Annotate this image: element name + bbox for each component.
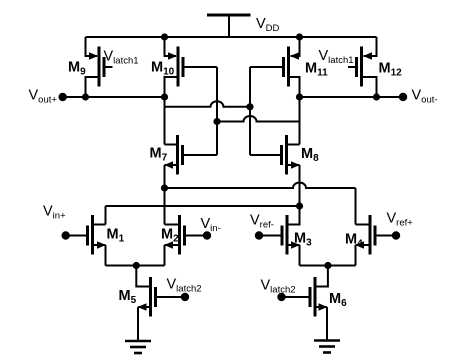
transistor M7 (NMOS) <box>164 135 217 225</box>
wire M1 drain vertical <box>105 206 107 225</box>
terminal dot Vlatch2 left <box>181 293 189 301</box>
wire M11 gate to M8 gate vertical <box>249 67 251 155</box>
terminal dot Vlatch2 right <box>277 293 285 301</box>
junction dot M10 drain / node Vout+ <box>161 93 168 100</box>
junction dot row2 / M10 gate <box>213 118 220 125</box>
terminal dot Vref- <box>255 231 263 239</box>
transistor M9 (PMOS) <box>86 37 113 97</box>
junction dot left tail <box>133 262 140 269</box>
wire right column vertical (M11 drain to M8 drain) <box>299 97 301 145</box>
terminal dot Vin- <box>203 231 211 239</box>
svg-text:Vout-: Vout- <box>412 88 438 106</box>
terminal dot Vref+ <box>392 231 400 239</box>
transistor M5 (NMOS tail) <box>136 266 185 342</box>
junction dot M11 drain / node Vout- <box>296 93 303 100</box>
svg-text:M5: M5 <box>119 288 137 306</box>
junction dot rail2 / M8 source / M3 drain <box>296 202 303 209</box>
svg-text:M10: M10 <box>151 60 175 78</box>
svg-text:M8: M8 <box>301 146 319 164</box>
junction dot rail1 / M7 source <box>161 184 168 191</box>
junction dot top rail / M10 source <box>161 33 168 40</box>
svg-text:Vin+: Vin+ <box>43 204 66 222</box>
svg-text:M9: M9 <box>68 60 86 78</box>
wire Vout+ rail <box>63 96 165 98</box>
wire M10 gate to M7 gate vertical <box>216 67 218 155</box>
ground (left, under M5) <box>125 341 151 353</box>
svg-text:Vref+: Vref+ <box>387 210 414 228</box>
transistor M1 (NMOS) <box>66 215 106 266</box>
terminal dot Vout- <box>399 93 407 101</box>
wire left tail rail <box>106 265 165 267</box>
svg-text:M2: M2 <box>161 227 179 245</box>
svg-text:M4: M4 <box>345 232 363 250</box>
svg-text:Vref-: Vref- <box>250 212 274 230</box>
VDD supply symbol <box>207 15 251 38</box>
terminal dot Vout+ <box>59 93 67 101</box>
wire M4 drain vertical <box>355 188 357 225</box>
svg-text:VDD: VDD <box>256 16 280 34</box>
wire rail2 (M1 drain to M3 drain / M8 source) <box>106 205 300 207</box>
transistor M8 (NMOS) <box>250 135 300 206</box>
wire Vout- rail <box>300 96 404 98</box>
transistor M2 (NMOS) <box>164 215 207 266</box>
terminal dot Vin+ <box>61 231 69 239</box>
junction dot M9 drain <box>82 93 89 100</box>
transistor M6 (NMOS tail) <box>282 266 328 341</box>
transistor M4 (NMOS) <box>355 215 396 266</box>
wire left column vertical (M10 drain to M7 drain) <box>164 97 166 145</box>
transistor M10 (PMOS) <box>165 37 218 97</box>
svg-text:M7: M7 <box>150 146 168 164</box>
ground (right, under M6) <box>314 341 340 353</box>
svg-text:Vin-: Vin- <box>201 216 221 234</box>
svg-text:M12: M12 <box>379 61 403 79</box>
transistor M3 (NMOS) <box>259 206 300 266</box>
junction dot right tail <box>324 262 331 269</box>
svg-text:M3: M3 <box>294 231 312 249</box>
svg-text:Vlatch2: Vlatch2 <box>261 277 296 295</box>
wire cross-couple row 2 (Vout- to M10/M7 gates) with hop <box>217 116 300 121</box>
svg-text:M6: M6 <box>329 291 347 309</box>
transistor M11 (PMOS) <box>250 37 300 97</box>
transistor M12 (PMOS) <box>348 37 377 97</box>
junction dot row1 / M11 gate <box>246 103 253 110</box>
wire right tail rail <box>300 265 356 267</box>
junction dot M12 drain <box>373 93 380 100</box>
svg-text:M1: M1 <box>107 227 125 245</box>
junction dot top rail / M11 source <box>296 33 303 40</box>
wire cross-couple row 1 (Vout+ to M11/M8 gates) with hop <box>165 101 251 107</box>
wire rail1 (M7 source to M4 drain) with hop <box>165 183 356 188</box>
wire top rail <box>86 36 377 38</box>
svg-text:Vlatch1: Vlatch1 <box>104 49 139 67</box>
svg-text:Vout+: Vout+ <box>29 88 58 106</box>
svg-text:Vlatch1: Vlatch1 <box>319 48 354 66</box>
svg-text:Vlatch2: Vlatch2 <box>167 276 202 294</box>
